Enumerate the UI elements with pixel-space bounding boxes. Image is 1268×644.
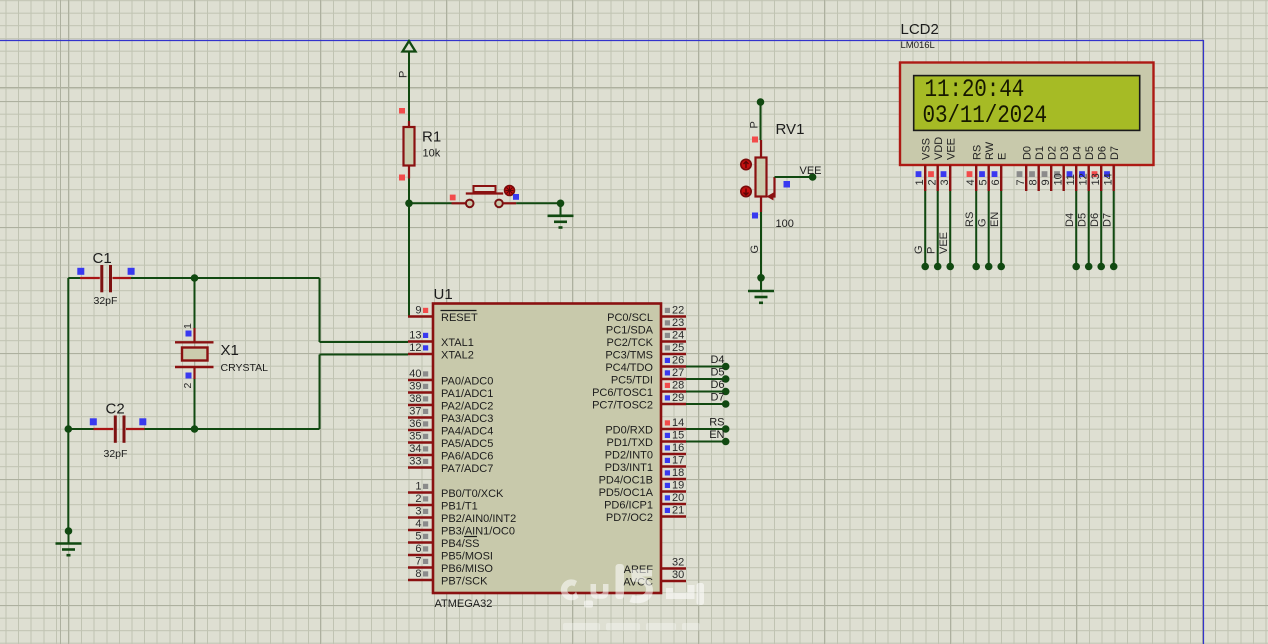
C1 marker right (blue) <box>128 268 135 275</box>
svg-text:CRYSTAL: CRYSTAL <box>221 362 269 374</box>
junction node crystal top <box>191 274 199 282</box>
C1 value 32pF <box>94 295 118 307</box>
svg-text:40: 40 <box>409 368 421 380</box>
svg-text:3: 3 <box>939 179 951 185</box>
svg-text:4: 4 <box>965 179 977 185</box>
R1 value 10k <box>423 148 441 160</box>
node LCD pin 3 <box>946 263 954 271</box>
svg-text:RS: RS <box>964 212 976 227</box>
net label P (RV1, vertical) <box>749 121 761 128</box>
svg-text:G: G <box>977 218 989 227</box>
resistor R1 <box>404 121 415 179</box>
R1 selection marker top <box>399 108 405 114</box>
svg-text:7: 7 <box>415 556 421 568</box>
svg-text:21: 21 <box>672 505 684 517</box>
svg-text:C2: C2 <box>106 401 125 418</box>
wire R1 to junction <box>408 179 410 205</box>
node RS <box>722 425 730 433</box>
svg-text:EN: EN <box>989 212 1001 227</box>
node LCD pin 12 <box>1085 263 1093 271</box>
U1 pin 26 PC4/TDO (right) <box>605 355 686 375</box>
net label D6 <box>710 379 724 391</box>
svg-text:D7: D7 <box>710 392 724 404</box>
svg-text:P: P <box>749 121 761 128</box>
svg-text:32: 32 <box>672 557 684 569</box>
watermark line 2 <box>563 623 700 631</box>
node LCD pin 13 <box>1097 263 1105 271</box>
svg-text:PB7/SCK: PB7/SCK <box>441 576 488 588</box>
wire LCD pin 14 to net D7 <box>1113 191 1115 267</box>
wire U1 to net D6 <box>686 391 726 393</box>
svg-text:RS: RS <box>972 145 984 160</box>
svg-text:37: 37 <box>409 406 421 418</box>
U1 pin 7 PB6/MISO (left) <box>408 556 493 576</box>
U1 pin 19 PD5/OC1A (right) <box>599 480 686 500</box>
svg-text:PD0/RXD: PD0/RXD <box>605 425 653 437</box>
LCD text line 2 <box>923 101 1048 129</box>
svg-text:100: 100 <box>776 218 794 230</box>
svg-text:PC5/TDI: PC5/TDI <box>611 375 653 387</box>
svg-text:VSS: VSS <box>921 138 933 160</box>
svg-text:9: 9 <box>1040 179 1052 185</box>
svg-text:26: 26 <box>672 355 684 367</box>
U1 pin 36 PA4/ADC4 (left) <box>408 418 493 438</box>
svg-text:22: 22 <box>672 305 684 317</box>
wire U1 to net D7 <box>686 403 726 405</box>
svg-text:PC6/TOSC1: PC6/TOSC1 <box>592 387 653 399</box>
net label D4 <box>710 354 724 366</box>
svg-text:P: P <box>398 71 410 78</box>
RV1 reference label <box>776 121 805 138</box>
svg-text:15: 15 <box>672 430 684 442</box>
U1 pin 32 AREF (right) <box>624 557 686 577</box>
svg-text:6: 6 <box>990 179 1002 185</box>
wire U1 to net RS <box>686 428 726 430</box>
wire junction to button <box>409 202 452 204</box>
svg-text:12: 12 <box>1077 173 1089 185</box>
wire LCD pin 11 to net D4 <box>1075 191 1077 267</box>
wire RV1 bottom to ground <box>760 212 762 278</box>
svg-text:PA0/ADC0: PA0/ADC0 <box>441 376 493 388</box>
net label D4 (vertical) <box>1064 213 1076 227</box>
node RV1 top (P) <box>757 98 765 106</box>
U1 pin 27 PC5/TDI (right) <box>611 367 686 387</box>
LCD LM016L body <box>900 63 1154 166</box>
svg-text:PD4/OC1B: PD4/OC1B <box>599 475 653 487</box>
svg-text:XTAL2: XTAL2 <box>441 350 474 362</box>
svg-text:PB3/AIN1/OC0: PB3/AIN1/OC0 <box>441 526 515 538</box>
IC U1 ATMEGA32 body <box>433 304 661 594</box>
svg-text:PA1/ADC1: PA1/ADC1 <box>441 388 493 400</box>
wire crystal top pin <box>194 278 196 328</box>
svg-text:RV1: RV1 <box>776 121 805 138</box>
node D4 <box>722 363 730 371</box>
svg-text:8: 8 <box>415 568 421 580</box>
button actuate icon (red) <box>505 186 515 196</box>
U1 pin 28 PC6/TOSC1 (right) <box>592 380 686 400</box>
button marker red <box>450 195 456 201</box>
svg-text:XTAL1: XTAL1 <box>441 337 474 349</box>
svg-text:4: 4 <box>415 518 421 530</box>
svg-text:D5: D5 <box>1084 146 1096 160</box>
C2 reference label <box>106 401 125 418</box>
svg-text:10: 10 <box>1052 173 1064 185</box>
svg-text:PB1/T1: PB1/T1 <box>441 501 478 513</box>
net label VEE (vertical) <box>938 232 950 254</box>
net label P (vertical) <box>398 71 410 78</box>
LCD2 part LM016L <box>901 40 935 51</box>
svg-text:8: 8 <box>1027 179 1039 185</box>
svg-text:E: E <box>997 153 1009 160</box>
svg-text:ATMEGA32: ATMEGA32 <box>435 598 493 610</box>
U1 pin 34 PA6/ADC6 (left) <box>408 443 493 463</box>
svg-text:PA6/ADC6: PA6/ADC6 <box>441 451 493 463</box>
U1 pin 20 PD6/ICP1 (right) <box>604 492 686 512</box>
node D6 <box>722 388 730 396</box>
svg-text:PA2/ADC2: PA2/ADC2 <box>441 401 493 413</box>
svg-text:27: 27 <box>672 367 684 379</box>
U1 pin 38 PA2/ADC2 (left) <box>408 393 493 413</box>
svg-text:PD6/ICP1: PD6/ICP1 <box>604 500 653 512</box>
svg-text:24: 24 <box>672 330 684 342</box>
svg-text:11:20:44: 11:20:44 <box>925 75 1025 103</box>
X1 reference label <box>221 342 239 359</box>
LCD pin 9 D2 <box>1040 146 1059 191</box>
LCD pin 8 D1 <box>1027 146 1046 191</box>
wire LCD pin 13 to net D6 <box>1100 191 1102 267</box>
RV1 adjust up icon <box>741 159 751 169</box>
power symbol P (arrow up) <box>403 41 416 52</box>
svg-text:VEE: VEE <box>946 138 958 160</box>
svg-text:EN: EN <box>709 429 724 441</box>
svg-text:VEE: VEE <box>800 165 822 177</box>
svg-text:PD5/OC1A: PD5/OC1A <box>599 487 654 499</box>
svg-text:D4: D4 <box>1064 213 1076 227</box>
crystal X1 <box>175 328 214 379</box>
RV1 adjust down icon <box>741 186 751 196</box>
capacitor C2 <box>68 416 144 443</box>
svg-text:R1: R1 <box>422 129 441 146</box>
net label RS (vertical) <box>964 212 976 227</box>
X1 pin 1 number (vertical) <box>182 323 194 329</box>
capacitor C1 <box>68 265 131 292</box>
U1 pin 21 PD7/OC2 (right) <box>606 505 686 525</box>
C2 marker right (blue) <box>139 418 146 425</box>
node LCD pin 14 <box>1110 263 1118 271</box>
U1 pin 39 PA1/ADC1 (left) <box>408 381 493 401</box>
U1 pin 1 PB0/T0/XCK (left) <box>408 481 504 501</box>
U1 pin 18 PD4/OC1B (right) <box>599 467 686 487</box>
push button <box>452 186 517 207</box>
svg-text:P: P <box>926 247 938 254</box>
svg-text:2: 2 <box>926 179 938 185</box>
node LCD pin 4 <box>972 263 980 271</box>
svg-text:RESET: RESET <box>441 312 478 324</box>
net label G (RV1, vertical) <box>749 245 761 254</box>
wire LCD pin 4 to net RS <box>975 191 977 267</box>
svg-text:D7: D7 <box>1102 213 1114 227</box>
node D7 <box>722 400 730 408</box>
junction node button/ground <box>557 200 565 208</box>
U1 part value ATMEGA32 <box>435 598 493 610</box>
wire button to ground <box>516 202 560 204</box>
svg-text:PA4/ADC4: PA4/ADC4 <box>441 426 493 438</box>
svg-text:18: 18 <box>672 467 684 479</box>
wire power arrow to R1 <box>408 52 410 122</box>
X1 pin 2 number (vertical) <box>182 383 194 389</box>
svg-text:38: 38 <box>409 393 421 405</box>
U1 pin 14 PD0/RXD (right) <box>605 417 686 437</box>
LCD pin 7 D0 <box>1015 146 1034 191</box>
net label D5 (vertical) <box>1077 213 1089 227</box>
wire LCD pin 2 to net P <box>937 191 939 267</box>
junction node C2 left <box>65 425 73 433</box>
svg-text:20: 20 <box>672 492 684 504</box>
svg-text:PD7/OC2: PD7/OC2 <box>606 512 653 524</box>
svg-text:32pF: 32pF <box>94 295 118 307</box>
svg-text:13: 13 <box>409 330 421 342</box>
LCD pin 13 D6 <box>1090 146 1109 191</box>
U1 pin 29 PC7/TOSC2 (right) <box>592 392 686 412</box>
U1 pin 12 XTAL2 (left) <box>408 342 474 362</box>
svg-text:D5: D5 <box>1077 213 1089 227</box>
wire LCD pin 1 to net G <box>924 191 926 267</box>
svg-text:PC7/TOSC2: PC7/TOSC2 <box>592 400 653 412</box>
svg-text:35: 35 <box>409 431 421 443</box>
svg-text:PD3/INT1: PD3/INT1 <box>605 462 653 474</box>
LCD pin 6 E <box>990 153 1009 191</box>
LCD pin 2 VDD <box>926 137 945 191</box>
svg-text:1: 1 <box>182 323 194 329</box>
wire C1 net to crystal/XTAL1 <box>131 278 408 342</box>
svg-text:2: 2 <box>415 493 421 505</box>
C2 value 32pF <box>104 448 128 460</box>
wire junction down to RESET pin <box>409 203 412 316</box>
wire RV1 wiper to VEE <box>775 176 813 178</box>
svg-text:7: 7 <box>1015 179 1027 185</box>
svg-text:D4: D4 <box>1072 146 1084 160</box>
net label EN <box>709 429 724 441</box>
X1 value CRYSTAL <box>221 362 269 374</box>
svg-text:LCD2: LCD2 <box>901 21 939 38</box>
svg-text:1: 1 <box>914 179 926 185</box>
U1 pin 8 PB7/SCK (left) <box>408 568 488 588</box>
svg-text:19: 19 <box>672 480 684 492</box>
net label RS <box>709 417 724 429</box>
svg-text:33: 33 <box>409 456 421 468</box>
C1 reference label <box>93 250 112 267</box>
node RV1 bottom <box>757 274 765 282</box>
U1 pin 37 PA3/ADC3 (left) <box>408 406 493 426</box>
U1 pin 35 PA5/ADC5 (left) <box>408 431 493 451</box>
LCD pin 4 RS <box>965 145 984 191</box>
LCD pin 11 D4 <box>1065 146 1084 191</box>
C1 marker left (blue) <box>77 268 84 275</box>
ground (left) <box>56 531 82 555</box>
U1 pin 5 PB4/SS (left) <box>408 531 480 551</box>
svg-text:PB0/T0/XCK: PB0/T0/XCK <box>441 488 504 500</box>
U1 pin 15 PD1/TXD (right) <box>607 430 686 450</box>
svg-text:14: 14 <box>1102 173 1114 185</box>
svg-text:D6: D6 <box>710 379 724 391</box>
svg-text:23: 23 <box>672 317 684 329</box>
net label G (vertical) <box>913 245 925 254</box>
svg-text:PA7/ADC7: PA7/ADC7 <box>441 463 493 475</box>
svg-text:D5: D5 <box>710 367 724 379</box>
svg-text:6: 6 <box>415 543 421 555</box>
LCD pin 5 RW <box>977 141 996 191</box>
node LCD pin 1 <box>921 263 929 271</box>
RV1 marker red <box>752 137 758 143</box>
svg-text:PD2/INT0: PD2/INT0 <box>605 450 653 462</box>
svg-text:PA3/ADC3: PA3/ADC3 <box>441 413 493 425</box>
U1 pin 9 RESET (left) <box>408 305 478 325</box>
svg-text:PB2/AIN0/INT2: PB2/AIN0/INT2 <box>441 513 516 525</box>
U1 pin 13 XTAL1 (left) <box>408 330 474 350</box>
svg-text:PC4/TDO: PC4/TDO <box>605 362 653 374</box>
svg-text:D0: D0 <box>1022 146 1034 160</box>
wire U1 to net EN <box>686 441 726 443</box>
LCD pin 12 D5 <box>1077 146 1096 191</box>
svg-text:11: 11 <box>1065 174 1077 185</box>
RV1 value 100 <box>776 218 794 230</box>
svg-text:30: 30 <box>672 569 684 581</box>
LCD text line 1 <box>925 75 1025 103</box>
svg-text:PC3/TMS: PC3/TMS <box>605 350 653 362</box>
svg-text:D3: D3 <box>1059 146 1071 160</box>
svg-text:G: G <box>913 245 925 254</box>
svg-text:3: 3 <box>415 506 421 518</box>
svg-text:D2: D2 <box>1047 146 1059 160</box>
X1 pin1 marker (blue) <box>186 331 192 337</box>
svg-text:PC0/SCL: PC0/SCL <box>607 312 653 324</box>
net label EN (vertical) <box>989 212 1001 227</box>
U1 pin 6 PB5/MOSI (left) <box>408 543 493 563</box>
svg-text:25: 25 <box>672 342 684 354</box>
button marker blue <box>513 194 519 200</box>
wire U1 to net D4 <box>686 366 726 368</box>
junction node above ground (left) <box>65 527 73 535</box>
U1 pin 40 PA0/ADC0 (left) <box>408 368 493 388</box>
node LCD pin 5 <box>985 263 993 271</box>
LCD2 reference label <box>901 21 939 38</box>
svg-text:34: 34 <box>409 443 421 455</box>
svg-text:29: 29 <box>672 392 684 404</box>
node EN <box>722 438 730 446</box>
net label VEE <box>800 165 822 177</box>
wire LCD pin 3 to net VEE <box>949 191 951 267</box>
node LCD pin 2 <box>934 263 942 271</box>
U1 reference label <box>434 286 453 303</box>
net label D6 (vertical) <box>1089 213 1101 227</box>
U1 pin 4 PB3/AIN1/OC0 (left) <box>408 518 515 538</box>
LCD pin 14 D7 <box>1102 146 1121 191</box>
svg-text:36: 36 <box>409 418 421 430</box>
node LCD pin 11 <box>1072 263 1080 271</box>
ground (RV1) <box>748 278 774 303</box>
junction node crystal bottom <box>191 425 199 433</box>
wire C2 net to XTAL2 <box>145 355 409 430</box>
LCD screen <box>914 76 1140 131</box>
wire LCD pin 6 to net EN <box>1000 191 1002 267</box>
U1 pin 24 PC2/TCK (right) <box>607 330 686 350</box>
svg-text:PB5/MOSI: PB5/MOSI <box>441 551 493 563</box>
LCD pin 10 D3 <box>1052 146 1071 191</box>
RV1 wiper marker blue <box>784 181 791 188</box>
svg-text:X1: X1 <box>221 342 239 359</box>
svg-text:16: 16 <box>672 442 684 454</box>
net label P (vertical) <box>926 247 938 254</box>
U1 pin 17 PD3/INT1 (right) <box>605 455 686 475</box>
svg-text:14: 14 <box>672 417 684 429</box>
net label D5 <box>710 367 724 379</box>
wire LCD pin 12 to net D5 <box>1088 191 1090 267</box>
svg-text:VEE: VEE <box>938 232 950 254</box>
svg-text:2: 2 <box>182 383 194 389</box>
node LCD pin 6 <box>997 263 1005 271</box>
U1 pin 25 PC3/TMS (right) <box>605 342 686 362</box>
potentiometer RV1 <box>756 140 775 212</box>
svg-text:D4: D4 <box>710 354 724 366</box>
RV1 bottom marker blue <box>752 213 758 219</box>
net label G (vertical) <box>977 218 989 227</box>
net label D7 (vertical) <box>1102 213 1114 227</box>
svg-text:13: 13 <box>1090 173 1102 185</box>
svg-text:12: 12 <box>409 342 421 354</box>
U1 pin 3 PB2/AIN0/INT2 (left) <box>408 506 516 526</box>
svg-text:LM016L: LM016L <box>901 40 935 51</box>
svg-text:39: 39 <box>409 381 421 393</box>
svg-text:PC1/SDA: PC1/SDA <box>606 325 654 337</box>
wire LCD pin 5 to net G <box>988 191 990 267</box>
LCD pin 1 VSS <box>914 138 933 191</box>
X1 pin2 marker (blue) <box>186 373 192 379</box>
U1 pin 30 AVCC (right) <box>623 569 686 589</box>
svg-text:PB4/SS: PB4/SS <box>441 538 480 550</box>
svg-text:C1: C1 <box>93 250 112 267</box>
U1 pin 22 PC0/SCL (right) <box>607 305 686 325</box>
svg-text:28: 28 <box>672 380 684 392</box>
net label D7 <box>710 392 724 404</box>
svg-text:PA5/ADC5: PA5/ADC5 <box>441 438 493 450</box>
U1 pin 2 PB1/T1 (left) <box>408 493 478 513</box>
svg-text:32pF: 32pF <box>104 448 128 460</box>
svg-text:1: 1 <box>415 481 421 493</box>
junction node R1/button/RESET <box>405 200 413 208</box>
node VEE <box>809 173 817 181</box>
R1 reference label <box>422 129 441 146</box>
svg-text:D6: D6 <box>1089 213 1101 227</box>
svg-text:9: 9 <box>415 305 421 317</box>
svg-text:5: 5 <box>977 179 989 185</box>
ground (button) <box>548 203 574 227</box>
svg-text:PD1/TXD: PD1/TXD <box>607 437 654 449</box>
svg-text:17: 17 <box>672 455 684 467</box>
svg-text:PC2/TCK: PC2/TCK <box>607 337 654 349</box>
U1 pin 16 PD2/INT0 (right) <box>605 442 686 462</box>
C2 marker left (blue) <box>90 418 97 425</box>
svg-text:D1: D1 <box>1034 146 1046 160</box>
wire crystal bottom pin <box>194 379 196 429</box>
U1 pin 23 PC1/SDA (right) <box>606 317 686 337</box>
LCD pin 3 VEE <box>939 138 958 191</box>
svg-text:5: 5 <box>415 531 421 543</box>
svg-text:PB6/MISO: PB6/MISO <box>441 563 493 575</box>
wire RV1 top <box>760 102 762 140</box>
svg-text:03/11/2024: 03/11/2024 <box>923 101 1048 129</box>
wire U1 to net D5 <box>686 378 726 380</box>
svg-text:D7: D7 <box>1109 146 1121 160</box>
